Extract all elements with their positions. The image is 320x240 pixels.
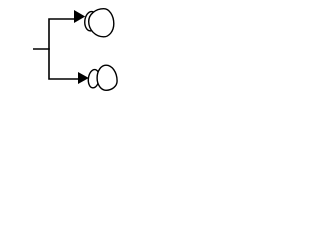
lamp 2 arrow connector — [78, 72, 89, 84]
lamp 2 (bottom) — [78, 65, 117, 90]
wire (vertical trunk with top and bottom branches) — [49, 19, 79, 79]
lamp 1 (top) — [74, 9, 114, 37]
lamp 1 bulb ellipse — [89, 9, 114, 37]
lamp 1 arrow connector — [74, 10, 85, 23]
lamp 1 base ellipse — [84, 11, 98, 32]
wire (input stub to junction node) — [33, 48, 50, 50]
lamp 2 base ellipse — [87, 69, 100, 89]
lamp 2 bulb ellipse — [97, 65, 117, 90]
